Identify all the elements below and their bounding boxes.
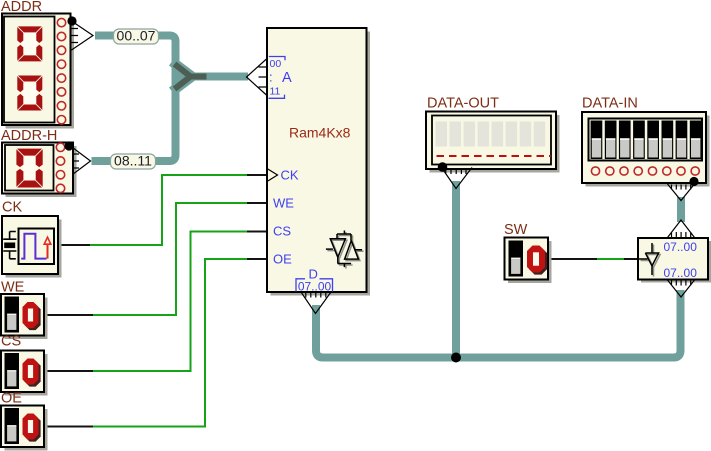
svg-text::: :: [269, 70, 273, 85]
wire bus DATA-OUT drop: [452, 181, 460, 358]
wire bus D to DATA-OUT and tristate U2: [316, 290, 681, 358]
wire bus ADDR to A (00..07 / 08..11 merge): [92, 36, 249, 162]
svg-text:07..00: 07..00: [664, 266, 698, 280]
bus tap fan ADDR: [72, 21, 94, 50]
svg-text:CS: CS: [273, 224, 291, 239]
node ADDR output junction: [67, 16, 76, 25]
wire bus DATA-IN to tristate U2: [677, 197, 685, 222]
svg-text:00: 00: [270, 58, 282, 70]
clock generator CK: [2, 200, 62, 278]
svg-text:CS: CS: [1, 334, 21, 350]
RAM U1 Ram4Kx8: [267, 28, 370, 296]
bus port fan RAM A: [247, 59, 268, 96]
svg-text:11: 11: [270, 86, 281, 98]
svg-text:OE: OE: [273, 252, 292, 267]
svg-text:WE: WE: [273, 196, 294, 211]
bus tap fan DATA-IN: [668, 184, 695, 201]
wire WE to RAM WE: [44, 203, 267, 315]
svg-text:SW: SW: [504, 222, 528, 238]
node ADDR-H output junction: [64, 141, 73, 150]
svg-text:A: A: [282, 70, 292, 86]
bus label 08..11: [111, 153, 156, 170]
switch SW: [504, 222, 552, 283]
wire CS to RAM CS: [44, 232, 267, 372]
display ADDR-H (address high input, 1 digit): [1, 128, 77, 197]
svg-text:07..00: 07..00: [298, 280, 332, 294]
tristate bus driver U2: [638, 238, 711, 283]
svg-text:08..11: 08..11: [114, 153, 152, 169]
display DATA-OUT (LED bar output): [426, 96, 560, 173]
svg-text:OE: OE: [1, 391, 22, 407]
bus tap fan ADDR-H: [73, 148, 91, 175]
svg-text:DATA-OUT: DATA-OUT: [427, 96, 499, 112]
svg-text:CK: CK: [2, 200, 22, 216]
wire OE to RAM OE: [44, 259, 267, 427]
bus tap fan DATA-OUT: [442, 168, 473, 189]
bus merge Y junction: [175, 64, 207, 89]
bus port fan U2 top: [668, 220, 695, 238]
svg-text:00..07: 00..07: [117, 28, 156, 44]
switch OE: [1, 391, 48, 451]
switch CS: [1, 334, 48, 396]
node DATA-OUT junction: [438, 162, 448, 172]
wire CK to RAM CK: [58, 175, 267, 245]
switch WE: [1, 280, 48, 340]
bus label 00..07: [114, 28, 159, 45]
node bus junction (DATA-OUT / D bus): [451, 353, 461, 363]
bus port fan RAM D: [301, 292, 331, 314]
svg-text:CK: CK: [281, 168, 299, 183]
svg-text:Ram4Kx8: Ram4Kx8: [289, 125, 351, 141]
svg-text:07..00: 07..00: [664, 240, 698, 254]
display ADDR (address input, 2 digits): [1, 0, 74, 129]
bus port fan U2 bottom: [668, 280, 695, 297]
svg-text:DATA-IN: DATA-IN: [582, 96, 638, 112]
wire SW to tristate U2 enable: [548, 258, 638, 260]
display DATA-IN (8 input switches): [582, 96, 710, 187]
node DATA-IN junction: [689, 177, 698, 186]
